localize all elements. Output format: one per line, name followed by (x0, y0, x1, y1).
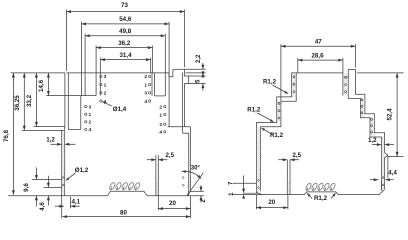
svg-text:9,6: 9,6 (23, 183, 30, 192)
top surface extension to the left dims (11, 72, 65, 74)
extension line right of dim 49,8 (164, 34, 166, 96)
svg-text:1: 1 (159, 112, 162, 118)
right profile right wall hatching 3 (370, 118, 374, 137)
right profile left wall hatching 2 (277, 101, 281, 122)
dim 1,2 right wall (372, 144, 381, 146)
right profile terminal holes left wall A (293, 76, 295, 78)
left profile top surface (66, 72, 169, 74)
right profile: dimension 47 (281, 45, 356, 47)
left profile left outer wall upper (64, 73, 66, 127)
extension line left of dim 31,4 (99, 58, 101, 96)
right profile: dimension 28,6 (298, 59, 343, 61)
svg-text:36,2: 36,2 (118, 40, 131, 47)
left profile right outer wall below bump (183, 84, 185, 127)
svg-text:R1,2: R1,2 (314, 195, 328, 202)
extension line right of dim 73 (183, 10, 185, 68)
svg-text:4: 4 (144, 99, 147, 105)
svg-text:4,1: 4,1 (71, 198, 80, 205)
internal wall right inner lower (182, 127, 184, 134)
terminal holes column C (2 1 3 4) (148, 75, 150, 77)
left profile bottom-left wall hatching (62, 131, 65, 194)
left profile: dimension 36,2 (96, 47, 152, 49)
svg-text:R1,2: R1,2 (263, 78, 277, 85)
left profile snap slot lines (155, 155, 157, 196)
right profile snap slot lines (286, 160, 288, 195)
svg-text:5: 5 (195, 79, 202, 83)
dim 7 bottom left right drawing (233, 182, 256, 184)
extension line left of dim 47 (280, 44, 282, 101)
right profile lip top (348, 68, 355, 70)
left profile bottom face (8, 195, 107, 197)
svg-text:2: 2 (144, 74, 147, 80)
left profile right wall bump (5mm) (184, 76, 188, 84)
extension line right of dim 54,6 (168, 22, 170, 127)
left profile serration loops (109, 182, 141, 191)
tiny wall circles bottom left (62, 177, 64, 179)
left profile: dimension 76,8 (12, 73, 14, 195)
svg-text:20: 20 (268, 199, 275, 206)
svg-text:76,8: 76,8 (3, 129, 10, 142)
right profile right wall hatching 4 (382, 137, 385, 190)
left profile bottom-right chamfer (187, 191, 191, 195)
right profile snap slot hatching (287, 182, 290, 194)
wall line right of top chamber (151, 73, 153, 96)
dim 80 bottom (61, 196, 63, 219)
left profile foot ledge 9,6 (32, 179, 62, 181)
svg-text:3: 3 (159, 122, 162, 128)
extension line left of dim 54,6 (80, 22, 82, 96)
terminal holes column B (3 1 2 4) (85, 105, 87, 107)
svg-text:1: 1 (104, 82, 107, 88)
dim 4,1 (70, 197, 72, 209)
svg-text:1,2: 1,2 (46, 137, 55, 144)
extension line left of dim 28,6 (297, 58, 299, 73)
left profile: dimension 49,8 (85, 35, 165, 37)
svg-text:52,4: 52,4 (387, 108, 394, 121)
right profile groove inner wall (347, 69, 349, 98)
svg-text:3: 3 (144, 91, 147, 97)
svg-text:1,2: 1,2 (368, 137, 377, 144)
svg-text:R1,2: R1,2 (247, 106, 261, 113)
dim 5 right wall bump (189, 75, 206, 77)
svg-text:2: 2 (104, 91, 107, 97)
svg-text:1: 1 (144, 82, 147, 88)
dim 2,2 top right (184, 68, 205, 70)
svg-text:54,6: 54,6 (119, 16, 132, 23)
svg-text:33,2: 33,2 (26, 94, 33, 107)
svg-text:4: 4 (89, 127, 92, 133)
extension line right of dim 36,2 (151, 46, 153, 73)
svg-text:73: 73 (121, 2, 128, 9)
right profile left staircase inner (261, 73, 297, 191)
extension line right of dim 28,6 (342, 58, 344, 73)
svg-text:28,6: 28,6 (311, 52, 324, 59)
left profile: dimension 54,6 (81, 23, 169, 25)
tread extension line to dim 14,6 (46, 95, 81, 97)
internal step right upper (155, 95, 166, 97)
svg-text:30°: 30° (191, 165, 201, 171)
right profile left wall hatching 3 (257, 127, 261, 192)
right profile right wall hatching 1 (343, 73, 348, 95)
left profile serrated pad (107, 191, 146, 196)
svg-text:Ø1,2: Ø1,2 (75, 167, 89, 174)
extension line left of dim 73 (65, 10, 67, 71)
dim 20 bottom left drawing (157, 196, 159, 211)
right profile right staircase outer (355, 69, 388, 194)
svg-text:3: 3 (104, 74, 107, 80)
dim 20 bottom right drawing (255, 195, 257, 210)
left profile lip top (173, 68, 185, 70)
right profile terminal holes right wall A (345, 76, 347, 78)
dim 9,6 (35, 168, 37, 180)
internal step right at 126,7 (168, 126, 191, 128)
dim 2,5 right slot (278, 159, 287, 161)
left profile: dimension 31,4 (100, 59, 150, 61)
svg-text:4: 4 (159, 130, 162, 136)
dim 2 chamfer height (191, 190, 204, 192)
extension line left of dim 36,2 (95, 46, 97, 96)
left profile: dimension 14,6 (47, 73, 49, 96)
right profile groove bottom (343, 76, 348, 78)
right profile serration loops (305, 182, 336, 191)
dim 1,2 wall thickness (51, 143, 62, 145)
right profile terminal holes right wall C (371, 118, 373, 120)
dim 52,4 right side (357, 72, 404, 74)
right profile left staircase outer (256, 73, 291, 195)
left profile bottom-left inner wall (64, 127, 66, 196)
right profile terminal holes left wall B (278, 102, 280, 104)
right profile right wall hatching 2 (361, 99, 365, 118)
svg-text:Ø1,4: Ø1,4 (113, 106, 127, 113)
left profile: dimension 36,25 (23, 73, 25, 130)
right profile terminal holes left wall C (258, 180, 260, 182)
right profile lip groove (342, 73, 344, 96)
svg-text:2: 2 (89, 120, 92, 126)
right profile right staircase inner (348, 98, 381, 190)
svg-text:49,8: 49,8 (119, 28, 132, 35)
left profile bottom-right wall hatching (189, 151, 191, 192)
dim 2,5 slot (147, 159, 156, 161)
internal tread left at 129,4 (68, 128, 81, 130)
terminal holes column A (3 1 2 4) (100, 75, 102, 77)
svg-text:80: 80 (120, 210, 127, 217)
svg-text:4,6: 4,6 (39, 202, 46, 211)
svg-text:4,4: 4,4 (388, 170, 397, 177)
svg-text:R1,2: R1,2 (270, 132, 284, 139)
angle 30 deg annotation (187, 173, 204, 196)
left profile right wall inner line (182, 73, 184, 127)
svg-text:3: 3 (89, 104, 92, 110)
extension line right of dim 47 (354, 44, 356, 67)
svg-text:2: 2 (159, 104, 162, 110)
svg-text:31,4: 31,4 (119, 52, 132, 59)
internal step left (81, 95, 96, 97)
internal step right at 133,2 (183, 132, 189, 134)
right profile bottom face (262, 194, 305, 196)
svg-text:36,25: 36,25 (14, 95, 21, 111)
dim 4,4 right wall (380, 181, 382, 191)
left profile left wall inner line (67, 73, 69, 129)
left profile bottom-left outer wall (61, 130, 63, 195)
left profile: dimension 33,2 (35, 73, 37, 127)
extension line left of dim 49,8 (84, 34, 86, 96)
left profile bottom-right outer wall (190, 127, 192, 192)
left profile foot ledge 4,6 (44, 186, 62, 188)
right profile terminal holes right wall B (361, 99, 363, 101)
svg-text:2,2: 2,2 (195, 54, 202, 63)
left profile left ledge at 33,2 (34, 126, 65, 128)
left profile left ledge at 36,25 (22, 129, 64, 131)
svg-text:4: 4 (104, 99, 107, 105)
right profile left wall hatching 1 (292, 73, 297, 97)
left profile lip groove (169, 69, 173, 76)
left profile: top dimension 73 (66, 11, 184, 13)
right profile terminal holes right wall D (382, 177, 384, 179)
left profile right outer wall upper (183, 69, 185, 76)
internal wall right pair line (154, 73, 156, 96)
tiny wall circles bottom right (182, 177, 184, 179)
svg-text:2,5: 2,5 (165, 152, 174, 159)
svg-text:1: 1 (89, 112, 92, 118)
terminal holes column D (2 1 3 4) (164, 105, 166, 107)
right profile top surface (292, 72, 343, 74)
extension line right of dim 31,4 (150, 58, 152, 73)
svg-text:20: 20 (169, 200, 176, 207)
right profile serrated pad (305, 192, 339, 195)
svg-text:14,6: 14,6 (38, 79, 45, 92)
svg-text:47: 47 (315, 39, 322, 46)
left profile bottom-right inner wall (188, 133, 190, 196)
svg-text:2,5: 2,5 (292, 152, 301, 159)
dim 4,6 (47, 176, 49, 188)
internal wall left mid (80, 96, 82, 130)
left profile snap slot hatching (156, 183, 158, 196)
